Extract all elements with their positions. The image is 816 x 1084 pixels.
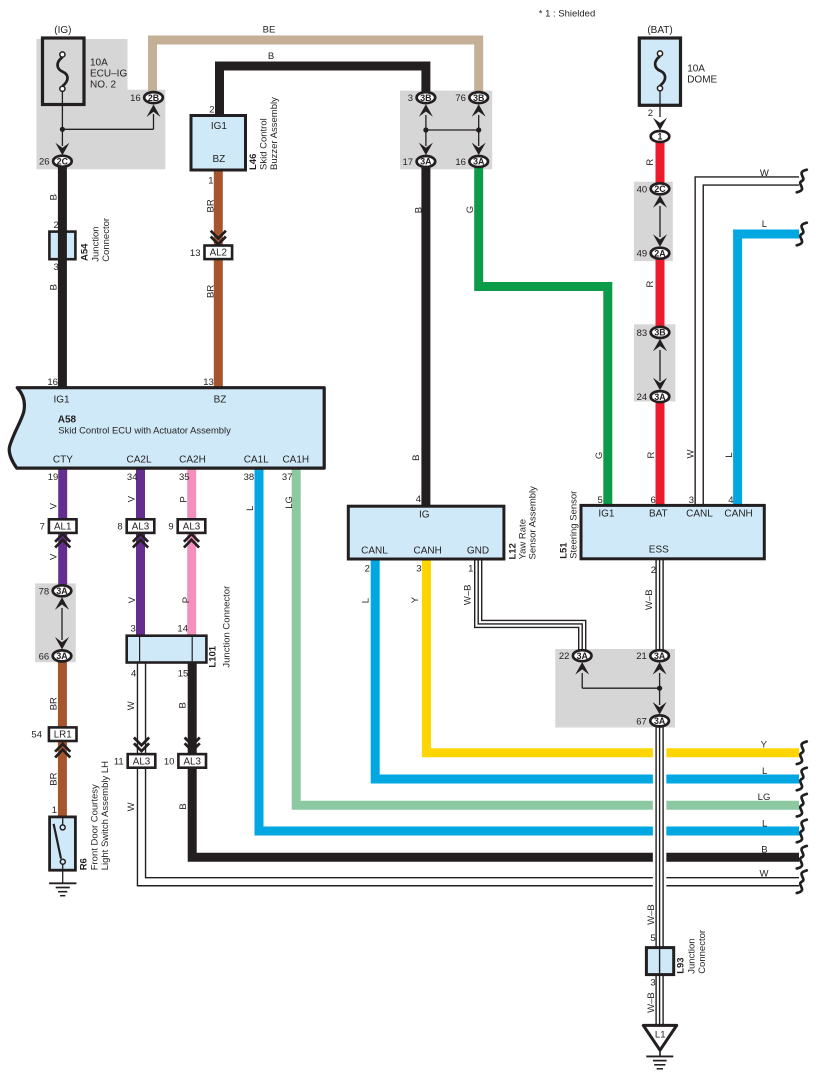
- svg-text:3: 3: [689, 495, 694, 506]
- svg-text:LG: LG: [758, 792, 771, 803]
- svg-text:CANL: CANL: [686, 509, 713, 520]
- svg-text:3A: 3A: [654, 392, 666, 402]
- svg-text:Connector: Connector: [101, 218, 112, 262]
- svg-text:1: 1: [52, 805, 57, 816]
- svg-text:L: L: [360, 598, 371, 603]
- svg-text:3: 3: [131, 624, 136, 635]
- svg-text:ECU–IG: ECU–IG: [90, 69, 127, 80]
- svg-text:W–B: W–B: [644, 589, 655, 610]
- svg-text:3A: 3A: [654, 651, 666, 661]
- svg-text:BR: BR: [49, 772, 60, 785]
- svg-text:3A: 3A: [56, 586, 68, 596]
- svg-text:LR1: LR1: [54, 730, 72, 741]
- svg-text:Connector: Connector: [697, 930, 708, 974]
- svg-text:W–B: W–B: [646, 904, 657, 925]
- svg-text:R: R: [646, 452, 657, 459]
- svg-text:1: 1: [658, 132, 663, 142]
- svg-text:Sensor Assembly: Sensor Assembly: [527, 486, 538, 560]
- svg-text:4: 4: [416, 494, 421, 505]
- svg-text:Y: Y: [410, 596, 421, 603]
- svg-text:83: 83: [637, 328, 648, 339]
- svg-text:P: P: [181, 597, 192, 603]
- svg-text:L: L: [724, 453, 735, 458]
- svg-text:Junction Connector: Junction Connector: [222, 586, 233, 668]
- svg-text:54: 54: [31, 730, 42, 741]
- svg-text:3: 3: [416, 564, 421, 575]
- svg-text:BR: BR: [49, 697, 60, 710]
- svg-text:17: 17: [403, 157, 414, 168]
- svg-text:21: 21: [636, 651, 647, 662]
- svg-text:GND: GND: [467, 545, 489, 556]
- svg-text:76: 76: [455, 93, 466, 104]
- svg-text:BZ: BZ: [213, 154, 226, 165]
- svg-text:B: B: [178, 803, 189, 809]
- svg-text:78: 78: [39, 586, 50, 597]
- svg-text:16: 16: [47, 377, 58, 388]
- svg-text:AL3: AL3: [183, 756, 201, 767]
- svg-text:5: 5: [650, 933, 655, 944]
- svg-text:B: B: [268, 51, 274, 62]
- svg-text:V: V: [127, 596, 138, 603]
- svg-text:37: 37: [282, 472, 293, 483]
- svg-text:3: 3: [54, 262, 59, 273]
- svg-text:3B: 3B: [420, 93, 431, 103]
- svg-text:24: 24: [637, 392, 648, 403]
- svg-text:Buzzer Assembly: Buzzer Assembly: [269, 97, 280, 170]
- svg-text:2: 2: [648, 108, 653, 119]
- svg-text:G: G: [465, 206, 476, 213]
- svg-text:3A: 3A: [577, 651, 589, 661]
- svg-text:* 1 : Shielded: * 1 : Shielded: [539, 9, 596, 20]
- svg-text:B: B: [411, 455, 422, 461]
- svg-text:15: 15: [178, 668, 189, 679]
- svg-text:B: B: [413, 207, 424, 213]
- svg-text:Front Door Courtesy: Front Door Courtesy: [89, 784, 100, 870]
- svg-text:BR: BR: [205, 199, 216, 212]
- svg-text:3: 3: [650, 978, 655, 989]
- svg-text:2C: 2C: [57, 156, 69, 166]
- svg-text:IG1: IG1: [53, 395, 70, 406]
- svg-text:6: 6: [651, 495, 656, 506]
- svg-text:CA1L: CA1L: [244, 455, 269, 466]
- svg-text:3A: 3A: [654, 716, 666, 726]
- svg-text:CA1H: CA1H: [282, 455, 309, 466]
- svg-text:40: 40: [637, 184, 648, 195]
- svg-text:IG1: IG1: [211, 121, 228, 132]
- svg-text:BZ: BZ: [214, 395, 227, 406]
- svg-text:G: G: [594, 452, 605, 459]
- svg-text:3B: 3B: [473, 93, 484, 103]
- svg-text:10A: 10A: [90, 58, 108, 69]
- svg-text:L: L: [762, 766, 767, 777]
- svg-text:L101: L101: [208, 645, 219, 667]
- svg-text:9: 9: [168, 522, 173, 533]
- svg-text:BAT: BAT: [649, 509, 668, 520]
- svg-text:AL3: AL3: [132, 522, 150, 533]
- svg-text:L: L: [245, 506, 256, 511]
- svg-text:35: 35: [179, 472, 190, 483]
- svg-text:V: V: [126, 495, 137, 502]
- svg-text:Steering Sensor: Steering Sensor: [569, 491, 580, 559]
- svg-text:3A: 3A: [420, 157, 432, 167]
- svg-text:Light Switch Assembly LH: Light Switch Assembly LH: [100, 761, 111, 870]
- svg-text:Skid Control: Skid Control: [259, 118, 270, 170]
- svg-text:8: 8: [117, 522, 122, 533]
- svg-text:W: W: [685, 450, 696, 459]
- svg-text:B: B: [178, 702, 189, 708]
- svg-text:26: 26: [39, 157, 50, 168]
- svg-text:13: 13: [203, 377, 214, 388]
- svg-text:5: 5: [598, 495, 603, 506]
- svg-text:BR: BR: [205, 285, 216, 298]
- svg-text:W: W: [760, 869, 769, 880]
- svg-text:66: 66: [39, 651, 50, 662]
- svg-text:1: 1: [208, 176, 213, 187]
- svg-text:67: 67: [636, 716, 647, 727]
- svg-text:NO. 2: NO. 2: [90, 80, 117, 91]
- svg-text:B: B: [48, 194, 59, 200]
- svg-text:B: B: [48, 284, 59, 290]
- svg-text:L46: L46: [248, 154, 259, 170]
- svg-text:W: W: [126, 701, 137, 710]
- svg-text:R: R: [645, 159, 656, 166]
- svg-text:3A: 3A: [56, 651, 68, 661]
- svg-text:11: 11: [114, 756, 124, 767]
- svg-text:L: L: [762, 219, 767, 230]
- svg-text:AL3: AL3: [183, 522, 201, 533]
- svg-text:W: W: [760, 168, 769, 179]
- svg-text:W–B: W–B: [463, 585, 474, 606]
- svg-text:Skid Control ECU with Actuator: Skid Control ECU with Actuator Assembly: [58, 424, 231, 435]
- svg-text:V: V: [49, 553, 60, 560]
- svg-text:2B: 2B: [148, 93, 159, 103]
- svg-text:AL3: AL3: [133, 756, 151, 767]
- svg-text:LG: LG: [284, 496, 295, 509]
- svg-text:ESS: ESS: [649, 544, 669, 555]
- svg-text:IG1: IG1: [598, 509, 615, 520]
- svg-text:CANL: CANL: [361, 545, 388, 556]
- svg-text:2: 2: [651, 565, 656, 576]
- svg-text:P: P: [179, 496, 190, 502]
- svg-text:L: L: [762, 819, 767, 830]
- svg-text:22: 22: [559, 651, 570, 662]
- svg-text:R6: R6: [78, 858, 89, 870]
- svg-text:2: 2: [54, 220, 59, 231]
- svg-text:34: 34: [127, 472, 138, 483]
- svg-text:CANH: CANH: [414, 545, 442, 556]
- svg-text:CA2H: CA2H: [179, 455, 206, 466]
- svg-text:2C: 2C: [654, 184, 666, 194]
- svg-text:A54: A54: [80, 243, 91, 261]
- svg-text:AL1: AL1: [54, 522, 71, 533]
- svg-text:14: 14: [177, 624, 188, 635]
- svg-text:3: 3: [408, 93, 413, 104]
- svg-text:1: 1: [468, 564, 473, 575]
- svg-text:W–B: W–B: [646, 992, 657, 1013]
- svg-text:3A: 3A: [473, 157, 485, 167]
- svg-text:L93: L93: [676, 957, 687, 973]
- svg-text:10: 10: [164, 756, 175, 767]
- svg-text:CANH: CANH: [724, 509, 752, 520]
- svg-text:DOME: DOME: [687, 75, 717, 86]
- svg-text:(BAT): (BAT): [647, 25, 672, 36]
- svg-text:2: 2: [209, 105, 214, 116]
- svg-text:AL2: AL2: [210, 248, 227, 259]
- svg-text:CTY: CTY: [53, 455, 73, 466]
- svg-text:BE: BE: [263, 25, 276, 36]
- svg-text:Y: Y: [761, 740, 768, 751]
- svg-text:(IG): (IG): [54, 25, 71, 36]
- svg-text:2A: 2A: [654, 248, 666, 258]
- svg-text:R: R: [645, 281, 656, 288]
- svg-text:2: 2: [365, 564, 370, 575]
- svg-text:L51: L51: [558, 542, 569, 559]
- svg-text:19: 19: [48, 472, 59, 483]
- svg-text:10A: 10A: [687, 64, 705, 75]
- svg-text:L1: L1: [655, 1029, 666, 1040]
- svg-text:16: 16: [455, 157, 466, 168]
- svg-text:3B: 3B: [654, 328, 665, 338]
- svg-text:38: 38: [244, 472, 255, 483]
- svg-text:4: 4: [728, 495, 733, 506]
- svg-text:7: 7: [40, 522, 45, 533]
- svg-text:B: B: [761, 845, 767, 856]
- svg-text:CA2L: CA2L: [126, 455, 151, 466]
- svg-text:W: W: [126, 802, 137, 811]
- svg-text:49: 49: [637, 249, 648, 260]
- svg-text:16: 16: [130, 93, 141, 104]
- svg-text:13: 13: [190, 248, 201, 259]
- svg-text:V: V: [49, 502, 60, 509]
- svg-text:IG: IG: [419, 510, 430, 521]
- svg-text:4: 4: [131, 668, 136, 679]
